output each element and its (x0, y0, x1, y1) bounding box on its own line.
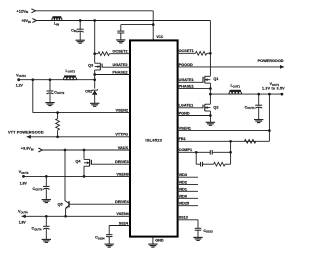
svg-text:DRIVE4: DRIVE4 (115, 200, 130, 204)
svg-text:FB1: FB1 (179, 137, 186, 141)
svg-text:SS13: SS13 (179, 216, 188, 220)
svg-text:CR2: CR2 (85, 90, 92, 94)
svg-text:1.2V: 1.2V (16, 83, 24, 87)
svg-text:VAUX: VAUX (118, 146, 129, 150)
svg-text:VSEN4: VSEN4 (116, 212, 129, 216)
svg-text:Q5: Q5 (58, 202, 63, 206)
svg-text:PGOOD: PGOOD (179, 63, 193, 67)
svg-text:VSEN3: VSEN3 (116, 172, 128, 176)
svg-text:PHASE1: PHASE1 (179, 85, 194, 89)
svg-text:1.3V to 3.5V: 1.3V to 3.5V (262, 86, 285, 90)
svg-text:VID2: VID2 (179, 180, 187, 184)
svg-text:VSEN1: VSEN1 (179, 127, 191, 131)
svg-text:LGATE1: LGATE1 (179, 104, 194, 108)
svg-text:ISL6523: ISL6523 (145, 138, 162, 143)
svg-text:POWERGOOD: POWERGOOD (258, 59, 284, 63)
svg-text:VID1: VID1 (179, 187, 187, 191)
svg-text:1.8V: 1.8V (20, 181, 28, 185)
svg-text:PGND: PGND (179, 111, 190, 115)
svg-text:VID25: VID25 (179, 202, 190, 206)
svg-text:SS24: SS24 (119, 221, 129, 225)
svg-text:1.8V: 1.8V (19, 221, 27, 225)
svg-text:VTTPG: VTTPG (115, 133, 128, 137)
svg-text:DRIVE3: DRIVE3 (115, 160, 129, 164)
svg-text:Q4: Q4 (75, 159, 81, 163)
svg-text:VID3: VID3 (179, 173, 187, 177)
svg-text:UGATE2: UGATE2 (112, 63, 127, 67)
svg-text:COUT3: COUT3 (32, 187, 42, 192)
svg-text:COUT2: COUT2 (54, 91, 64, 96)
svg-text:COMP1: COMP1 (179, 148, 193, 152)
svg-text:UGATE1: UGATE1 (179, 78, 194, 82)
svg-text:Q3: Q3 (88, 63, 93, 67)
svg-text:Q1: Q1 (213, 77, 218, 81)
svg-text:VCC: VCC (156, 35, 163, 39)
svg-text:VTT POWERGOOD: VTT POWERGOOD (8, 131, 44, 135)
svg-text:VSEN2: VSEN2 (116, 109, 128, 113)
svg-text:OCSET1: OCSET1 (179, 49, 194, 53)
svg-text:VID0: VID0 (179, 194, 187, 198)
svg-text:Q2: Q2 (213, 105, 218, 109)
svg-text:OCSET2: OCSET2 (112, 50, 127, 54)
svg-text:GND: GND (155, 239, 164, 243)
svg-text:PHASE2: PHASE2 (112, 70, 127, 74)
